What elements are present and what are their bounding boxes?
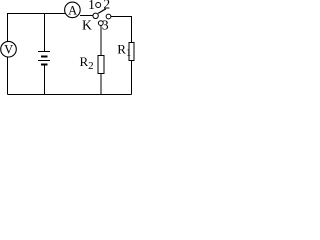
svg-text:R2: R2 bbox=[80, 54, 94, 72]
svg-text:K: K bbox=[82, 18, 92, 33]
wire right edge lower bbox=[131, 61, 133, 95]
wire contact 3 to R2 bbox=[100, 26, 102, 56]
svg-text:2: 2 bbox=[103, 0, 110, 12]
ammeter A bbox=[65, 2, 81, 18]
wire battery branch upper bbox=[44, 14, 46, 52]
svg-text:A: A bbox=[68, 3, 77, 17]
voltmeter V bbox=[1, 41, 17, 57]
wire battery branch lower bbox=[44, 66, 46, 95]
svg-text:1: 1 bbox=[88, 0, 95, 12]
battery B1 bbox=[38, 52, 50, 65]
switch K pole bbox=[93, 13, 98, 18]
switch contact 1 bbox=[96, 3, 101, 8]
switch contact 3 bbox=[98, 21, 103, 26]
wire right edge upper bbox=[111, 17, 132, 43]
svg-text:3: 3 bbox=[102, 18, 109, 33]
resistor R2 bbox=[98, 56, 104, 74]
wire R2 to bottom bbox=[100, 74, 102, 95]
switch K blade bbox=[98, 9, 106, 14]
resistor R1 bbox=[129, 43, 134, 61]
wire left lower (voltmeter to bottom) bbox=[7, 57, 9, 95]
wire bottom rail bbox=[8, 94, 132, 96]
wire top rail bbox=[8, 14, 66, 42]
wire ammeter to switch pole bbox=[80, 15, 93, 17]
svg-text:V: V bbox=[4, 43, 13, 57]
switch contact 2 bbox=[106, 14, 111, 19]
